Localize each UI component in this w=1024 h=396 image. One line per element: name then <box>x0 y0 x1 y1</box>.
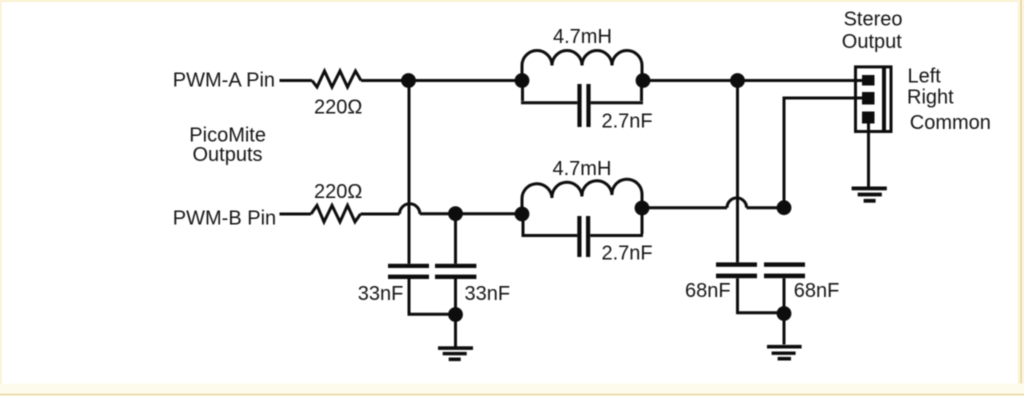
svg-text:2.7nF: 2.7nF <box>602 111 653 133</box>
junction inductor A left <box>515 73 530 88</box>
wire node B1 to inductor B <box>456 212 524 215</box>
wire connector Right pin to node B2 <box>784 98 862 208</box>
junction inductor B left <box>515 207 530 222</box>
connector J1 stereo output <box>856 67 892 132</box>
capacitor 68nF left channel A to ground <box>716 262 784 312</box>
svg-text:Outputs: Outputs <box>193 144 263 166</box>
capacitor 33nF left channel A to ground <box>388 264 456 315</box>
svg-text:33nF: 33nF <box>465 283 511 305</box>
junction node A1 <box>401 73 416 88</box>
connector label Stereo Output <box>842 9 903 54</box>
resistor 220ohm channel A <box>312 71 361 87</box>
inductor 4.7mH channel A <box>522 51 642 81</box>
inductor 4.7mH channel B <box>522 179 642 214</box>
svg-text:68nF: 68nF <box>685 280 731 302</box>
junction node A2 <box>730 73 745 88</box>
svg-text:PWM-B Pin: PWM-B Pin <box>173 208 276 230</box>
wire inductor A right to node A2 <box>643 79 738 82</box>
ground for 33nF caps <box>438 346 473 361</box>
wire node A1 to inductor A <box>409 79 524 82</box>
capacitor 68nF right channel B to ground <box>764 262 805 344</box>
svg-text:4.7mH: 4.7mH <box>553 158 612 180</box>
capacitor 33nF right channel B to ground <box>435 264 476 347</box>
wire node A2 to connector pin Left <box>738 79 862 82</box>
resistor 220ohm channel B <box>311 205 361 222</box>
wire hop over A1 branch <box>400 204 420 214</box>
svg-text:4.7mH: 4.7mH <box>553 26 612 48</box>
ground for 68nF caps <box>767 345 802 361</box>
svg-text:Stereo: Stereo <box>844 9 903 31</box>
junction node B2 <box>777 200 792 215</box>
wire hop to node B2 <box>747 206 784 209</box>
wire resistor A to node A1 <box>361 79 409 82</box>
wire PWM-A pin lead <box>280 79 313 82</box>
junction inductor B right <box>635 201 650 216</box>
wire PWM-B pin lead <box>280 213 312 216</box>
svg-text:220Ω: 220Ω <box>314 97 362 119</box>
wire resistor B to hop <box>361 213 400 216</box>
svg-text:2.7nF: 2.7nF <box>602 243 653 265</box>
capacitor 2.7nF channel B <box>522 210 644 258</box>
junction ground node 68nF <box>777 306 792 321</box>
annotation PicoMite Outputs <box>189 125 266 167</box>
svg-text:PWM-A Pin: PWM-A Pin <box>173 70 275 92</box>
junction ground node 33nF <box>448 307 463 322</box>
svg-text:Left: Left <box>908 66 942 88</box>
wire node B1 down to 33nF right <box>454 214 457 264</box>
ground for connector common <box>852 187 887 203</box>
junction node B1 <box>448 206 463 221</box>
wire node A2 down to 68nF left (crosses PWM-B line) <box>736 81 739 263</box>
svg-text:33nF: 33nF <box>358 283 404 305</box>
junction inductor A right <box>636 73 651 88</box>
wire hop over A2 branch <box>727 198 747 208</box>
wire hop to node B1 <box>420 212 456 215</box>
capacitor 2.7nF channel A <box>521 82 643 127</box>
svg-text:Common: Common <box>910 112 991 134</box>
svg-text:Right: Right <box>907 87 954 109</box>
wire connector Common pin to ground <box>867 120 870 188</box>
wire node A1 down to 33nF left (crosses PWM-B line) <box>408 81 411 264</box>
wire inductor B right to hop <box>642 206 727 209</box>
svg-text:220Ω: 220Ω <box>314 181 362 203</box>
svg-text:68nF: 68nF <box>794 280 840 302</box>
svg-text:Output: Output <box>842 31 902 53</box>
